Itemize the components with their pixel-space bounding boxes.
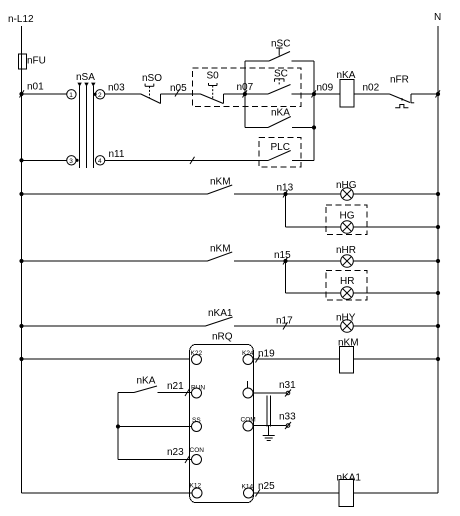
dashed box HR xyxy=(326,271,367,301)
wire bottom rail to K12 xyxy=(22,492,192,494)
svg-text:n21: n21 xyxy=(167,381,184,392)
wire n13 down branch xyxy=(285,194,287,227)
svg-text:HR: HR xyxy=(340,276,354,287)
node n13 / wire xyxy=(234,193,341,195)
wire S0 to node n07 xyxy=(223,93,268,95)
svg-text:nKA: nKA xyxy=(137,376,156,387)
svg-text:n19: n19 xyxy=(258,349,275,360)
nSA terminal 1 xyxy=(67,90,76,99)
svg-text:n02: n02 xyxy=(363,83,380,94)
wire nHR to rail xyxy=(353,260,438,262)
svg-text:nKA: nKA xyxy=(271,108,290,119)
node n02 / wire xyxy=(354,93,390,95)
node n25 / wire K14 to coil nKA1 xyxy=(254,492,340,494)
wire rail to K22 xyxy=(19,357,23,361)
node n19 / wire K24 to coil xyxy=(253,358,339,360)
svg-text:nKM: nKM xyxy=(210,177,231,188)
terminal end n33 xyxy=(286,424,290,428)
capacitor between n31 and n33 xyxy=(266,396,268,427)
junction nKA branch to n09 vertical xyxy=(312,125,316,129)
contact nSC (top branch) xyxy=(245,60,269,62)
svg-text:nKM: nKM xyxy=(210,244,231,255)
svg-text:nSA: nSA xyxy=(76,72,95,83)
wire left rail xyxy=(21,94,23,493)
wire feeder from n-L12 down to n01 xyxy=(21,26,23,94)
svg-text:nKA1: nKA1 xyxy=(208,308,233,319)
nSA terminal 2 xyxy=(95,90,104,99)
svg-text:SC: SC xyxy=(274,69,288,80)
svg-text:n03: n03 xyxy=(108,83,125,94)
lamp HG xyxy=(341,221,354,234)
svg-text:nHG: nHG xyxy=(336,180,357,191)
contact nKM (row 1) xyxy=(19,192,23,196)
node n23 / wire to CON xyxy=(118,459,192,461)
node n33 wire (COM) xyxy=(253,425,287,427)
wire nFR to rail N xyxy=(411,93,438,95)
contact nKA1 xyxy=(19,324,23,328)
svg-text:S0: S0 xyxy=(207,71,220,82)
wire vertical interconnect xyxy=(117,393,119,460)
module nRQ box xyxy=(190,345,254,503)
svg-text:n31: n31 xyxy=(279,380,296,391)
nSA terminal 3 xyxy=(67,156,76,165)
svg-text:nSO: nSO xyxy=(142,73,162,84)
node n15 / wire xyxy=(234,260,341,262)
svg-text:n23: n23 xyxy=(167,447,184,458)
svg-text:4: 4 xyxy=(98,158,102,165)
svg-text:n17: n17 xyxy=(276,316,293,327)
wire nHY to rail xyxy=(353,325,438,327)
wire SC to node n09 xyxy=(292,93,341,95)
svg-text:1: 1 xyxy=(69,92,73,99)
svg-text:n-L12: n-L12 xyxy=(8,14,34,25)
wire n15 down branch xyxy=(285,261,287,293)
svg-text:n25: n25 xyxy=(258,481,275,492)
wire coil nKM to rail xyxy=(353,358,438,360)
wire nHG to rail xyxy=(353,193,438,195)
svg-text:N: N xyxy=(434,12,441,23)
wire lamp HR to rail xyxy=(353,292,438,294)
node n17 / wire xyxy=(234,325,341,327)
nSA terminal 4 xyxy=(95,156,104,165)
svg-text:n05: n05 xyxy=(170,83,187,94)
junction / wire to SS xyxy=(116,424,120,428)
wire PLC to n09 vertical xyxy=(292,159,314,161)
svg-text:CON: CON xyxy=(190,447,205,454)
wire rail to nSA terminal 3 xyxy=(19,158,23,162)
fuse nFU xyxy=(19,54,27,69)
svg-text:n33: n33 xyxy=(279,412,296,423)
contact nKA (middle branch) xyxy=(245,127,268,129)
svg-text:HG: HG xyxy=(340,211,355,222)
svg-text:n11: n11 xyxy=(109,149,125,160)
ground xyxy=(268,426,270,436)
contact PLC (NO) xyxy=(269,151,291,161)
svg-text:nFR: nFR xyxy=(390,75,409,86)
svg-text:n13: n13 xyxy=(277,183,294,194)
wire n07 vertical branch xyxy=(244,61,246,128)
svg-text:n09: n09 xyxy=(317,83,334,94)
svg-text:2: 2 xyxy=(98,92,102,99)
dashed box HG xyxy=(326,205,367,235)
wire n09 vertical branch xyxy=(313,61,315,161)
contact nKM (row 2) xyxy=(19,259,23,263)
wire n01 to switch nSA terminal 1 xyxy=(22,93,67,95)
lamp HR xyxy=(341,287,354,300)
svg-text:nRQ: nRQ xyxy=(212,332,233,343)
svg-text:n01: n01 xyxy=(27,82,44,93)
wire to lamp HR xyxy=(286,292,341,294)
node n31 wire xyxy=(253,392,287,394)
node n05 / wire xyxy=(161,93,201,95)
node n21 / wire to RUN xyxy=(158,392,192,394)
dashed box SO/SC switch assembly xyxy=(193,68,302,107)
wire lamp HG to rail xyxy=(353,226,438,228)
svg-text:nHY: nHY xyxy=(336,313,356,324)
svg-text:n15: n15 xyxy=(274,250,291,261)
dashed box PLC xyxy=(259,137,301,166)
wire right rail N xyxy=(437,26,439,493)
wire to lamp HG xyxy=(286,226,341,228)
terminal + (right) xyxy=(247,381,249,388)
svg-text:3: 3 xyxy=(69,158,73,165)
wire coil nKA1 to rail N xyxy=(354,492,439,494)
svg-text:PLC: PLC xyxy=(271,142,290,153)
terminal end n31 xyxy=(286,391,290,395)
svg-text:nFU: nFU xyxy=(27,56,46,67)
